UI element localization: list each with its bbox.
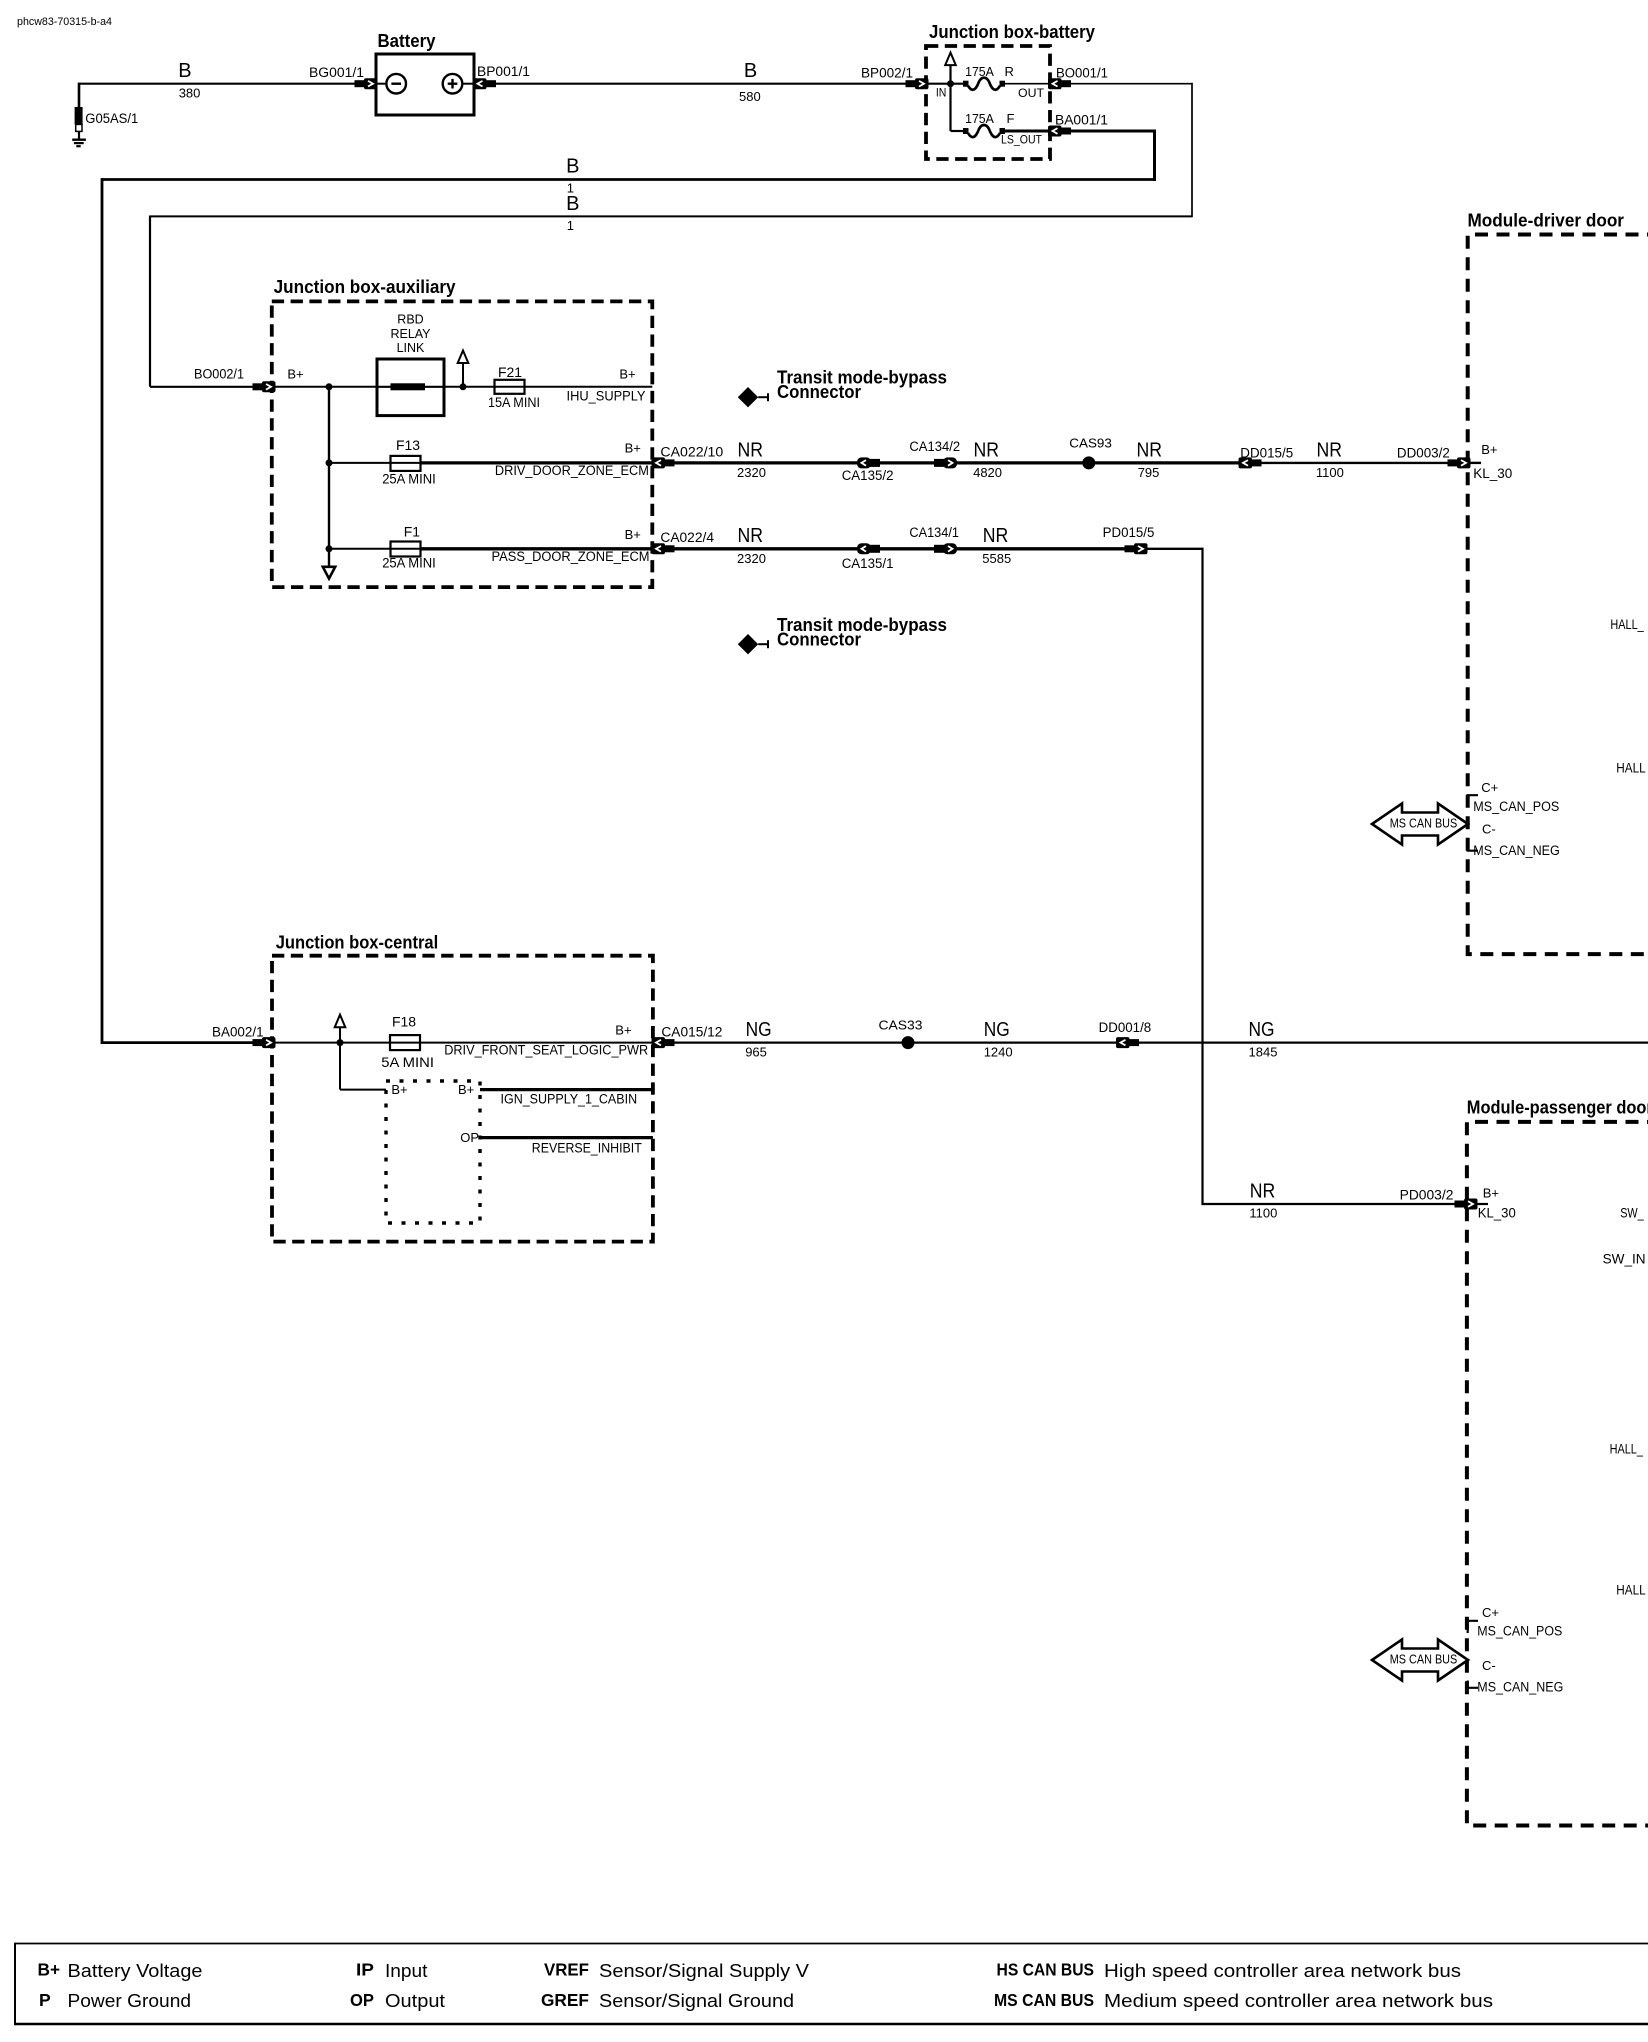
svg-text:795: 795 bbox=[1138, 465, 1160, 480]
svg-text:F1: F1 bbox=[404, 524, 421, 540]
svg-text:F: F bbox=[1007, 111, 1015, 126]
svg-text:F21: F21 bbox=[498, 364, 522, 380]
svg-text:B+: B+ bbox=[625, 527, 641, 542]
svg-text:4820: 4820 bbox=[973, 465, 1002, 480]
svg-text:REVERSE_INHIBIT: REVERSE_INHIBIT bbox=[532, 1140, 642, 1155]
svg-text:Input: Input bbox=[385, 1961, 428, 1981]
svg-text:Module-passenger door: Module-passenger door bbox=[1467, 1098, 1648, 1118]
svg-text:DD001/8: DD001/8 bbox=[1099, 1020, 1152, 1035]
svg-text:B: B bbox=[744, 60, 757, 82]
svg-text:NR: NR bbox=[983, 525, 1009, 547]
svg-text:CA134/1: CA134/1 bbox=[909, 525, 959, 540]
svg-text:CAS93: CAS93 bbox=[1069, 436, 1112, 451]
svg-text:C+: C+ bbox=[1482, 1605, 1499, 1620]
svg-text:B: B bbox=[566, 193, 579, 215]
svg-text:phcw83-70315-b-a4: phcw83-70315-b-a4 bbox=[17, 16, 112, 28]
svg-text:NR: NR bbox=[974, 439, 1000, 461]
svg-text:MS CAN BUS: MS CAN BUS bbox=[1390, 816, 1458, 830]
svg-text:C+: C+ bbox=[1481, 780, 1498, 795]
svg-text:CA135/1: CA135/1 bbox=[842, 556, 894, 571]
svg-text:Output: Output bbox=[385, 1991, 445, 2011]
svg-text:Medium speed controller area n: Medium speed controller area network bus bbox=[1104, 1991, 1493, 2011]
svg-text:Sensor/Signal Ground: Sensor/Signal Ground bbox=[599, 1991, 794, 2011]
svg-text:OP: OP bbox=[350, 1990, 374, 2010]
svg-text:MS_CAN_POS: MS_CAN_POS bbox=[1477, 1623, 1562, 1638]
svg-text:LS_OUT: LS_OUT bbox=[1001, 133, 1043, 147]
svg-text:MS_CAN_NEG: MS_CAN_NEG bbox=[1473, 843, 1560, 858]
svg-text:RELAY: RELAY bbox=[390, 327, 431, 341]
svg-text:F18: F18 bbox=[392, 1014, 416, 1030]
svg-text:Junction box-central: Junction box-central bbox=[276, 932, 439, 952]
svg-text:175A: 175A bbox=[965, 64, 994, 79]
svg-text:GREF: GREF bbox=[541, 1990, 589, 2010]
svg-text:5A MINI: 5A MINI bbox=[381, 1055, 434, 1070]
svg-text:B+: B+ bbox=[38, 1959, 61, 1979]
svg-text:B+: B+ bbox=[1483, 1186, 1499, 1201]
svg-text:NR: NR bbox=[1137, 439, 1163, 461]
svg-text:NR: NR bbox=[738, 525, 764, 547]
svg-text:NR: NR bbox=[738, 439, 764, 461]
svg-text:BG001/1: BG001/1 bbox=[309, 65, 364, 80]
svg-text:MS_CAN_POS: MS_CAN_POS bbox=[1473, 799, 1559, 814]
svg-text:KL_30: KL_30 bbox=[1473, 466, 1512, 481]
svg-text:High speed controller area net: High speed controller area network bus bbox=[1104, 1961, 1461, 1981]
svg-text:NR: NR bbox=[1317, 439, 1343, 461]
svg-text:1: 1 bbox=[567, 218, 574, 233]
svg-text:B: B bbox=[566, 156, 579, 178]
svg-text:Connector: Connector bbox=[777, 630, 861, 650]
svg-text:VREF: VREF bbox=[544, 1959, 589, 1979]
svg-text:BO002/1: BO002/1 bbox=[194, 367, 244, 382]
svg-text:CAS33: CAS33 bbox=[879, 1018, 923, 1033]
svg-text:1100: 1100 bbox=[1316, 465, 1344, 480]
svg-text:NG: NG bbox=[1249, 1019, 1275, 1041]
svg-text:SW_IN: SW_IN bbox=[1603, 1252, 1646, 1267]
svg-text:B+: B+ bbox=[615, 1023, 631, 1038]
svg-text:C-: C- bbox=[1482, 822, 1496, 837]
svg-text:B+: B+ bbox=[625, 440, 641, 455]
svg-text:175A: 175A bbox=[965, 111, 994, 126]
svg-text:CA135/2: CA135/2 bbox=[842, 468, 894, 483]
svg-text:965: 965 bbox=[745, 1044, 767, 1059]
svg-text:DRIV_FRONT_SEAT_LOGIC_PWR: DRIV_FRONT_SEAT_LOGIC_PWR bbox=[444, 1043, 648, 1058]
svg-text:Power Ground: Power Ground bbox=[68, 1991, 192, 2011]
svg-text:1845: 1845 bbox=[1249, 1044, 1278, 1059]
svg-text:HALL: HALL bbox=[1616, 761, 1646, 776]
svg-text:IN: IN bbox=[936, 85, 947, 99]
svg-text:5585: 5585 bbox=[982, 551, 1011, 566]
svg-text:B+: B+ bbox=[619, 367, 635, 382]
svg-text:G05AS/1: G05AS/1 bbox=[85, 111, 138, 126]
svg-text:CA022/10: CA022/10 bbox=[660, 444, 723, 459]
svg-text:NG: NG bbox=[984, 1019, 1010, 1041]
svg-text:Connector: Connector bbox=[777, 382, 861, 402]
svg-text:HALL: HALL bbox=[1616, 1582, 1646, 1597]
svg-text:B+: B+ bbox=[1481, 442, 1497, 457]
svg-text:Junction box-battery: Junction box-battery bbox=[929, 22, 1095, 42]
svg-text:380: 380 bbox=[179, 86, 201, 101]
svg-text:1100: 1100 bbox=[1249, 1206, 1277, 1221]
svg-text:BA001/1: BA001/1 bbox=[1055, 113, 1108, 128]
svg-text:HALL_: HALL_ bbox=[1610, 1442, 1644, 1457]
svg-text:PD015/5: PD015/5 bbox=[1103, 525, 1155, 540]
svg-text:IP: IP bbox=[356, 1959, 374, 1979]
svg-text:RBD: RBD bbox=[397, 313, 423, 327]
svg-text:MS CAN BUS: MS CAN BUS bbox=[994, 1990, 1094, 2010]
svg-text:25A MINI: 25A MINI bbox=[382, 471, 436, 486]
svg-text:Junction box-auxiliary: Junction box-auxiliary bbox=[274, 277, 456, 297]
svg-text:MS_CAN_NEG: MS_CAN_NEG bbox=[1477, 1680, 1563, 1695]
svg-text:DD003/2: DD003/2 bbox=[1397, 446, 1450, 461]
svg-text:Module-driver door: Module-driver door bbox=[1468, 211, 1625, 231]
svg-text:B+: B+ bbox=[287, 367, 303, 382]
svg-text:DD015/5: DD015/5 bbox=[1240, 446, 1293, 461]
svg-text:BO001/1: BO001/1 bbox=[1056, 66, 1108, 81]
svg-text:2320: 2320 bbox=[737, 465, 766, 480]
svg-text:CA022/4: CA022/4 bbox=[660, 530, 714, 545]
svg-text:OUT: OUT bbox=[1018, 86, 1045, 100]
svg-text:BP002/1: BP002/1 bbox=[861, 66, 913, 81]
svg-text:DRIV_DOOR_ZONE_ECM: DRIV_DOOR_ZONE_ECM bbox=[495, 463, 649, 478]
svg-text:1240: 1240 bbox=[984, 1044, 1013, 1059]
svg-text:HALL_: HALL_ bbox=[1610, 617, 1644, 632]
svg-text:F13: F13 bbox=[396, 437, 420, 453]
svg-text:KL_30: KL_30 bbox=[1478, 1206, 1516, 1221]
svg-text:CA134/2: CA134/2 bbox=[909, 439, 960, 454]
svg-text:B+: B+ bbox=[391, 1082, 407, 1097]
svg-text:PASS_DOOR_ZONE_ECM: PASS_DOOR_ZONE_ECM bbox=[492, 549, 650, 564]
svg-text:Battery: Battery bbox=[378, 31, 436, 51]
svg-text:C-: C- bbox=[1482, 1658, 1496, 1673]
svg-text:CA015/12: CA015/12 bbox=[661, 1025, 722, 1040]
svg-text:Battery Voltage: Battery Voltage bbox=[68, 1961, 203, 1981]
svg-text:MS CAN BUS: MS CAN BUS bbox=[1390, 1652, 1458, 1666]
svg-text:B+: B+ bbox=[458, 1082, 474, 1097]
svg-text:B: B bbox=[178, 60, 191, 82]
svg-text:P: P bbox=[39, 1990, 51, 2010]
svg-text:PD003/2: PD003/2 bbox=[1400, 1188, 1454, 1203]
svg-text:BP001/1: BP001/1 bbox=[477, 64, 530, 79]
svg-text:HS CAN BUS: HS CAN BUS bbox=[997, 1959, 1095, 1979]
svg-text:OP: OP bbox=[460, 1130, 479, 1145]
svg-text:Sensor/Signal Supply V: Sensor/Signal Supply V bbox=[599, 1961, 809, 1981]
svg-text:IHU_SUPPLY: IHU_SUPPLY bbox=[567, 389, 646, 404]
svg-text:SW_: SW_ bbox=[1620, 1206, 1644, 1221]
svg-text:2320: 2320 bbox=[737, 551, 766, 566]
svg-text:IGN_SUPPLY_1_CABIN: IGN_SUPPLY_1_CABIN bbox=[501, 1092, 638, 1107]
svg-text:NG: NG bbox=[746, 1019, 772, 1041]
svg-text:15A MINI: 15A MINI bbox=[488, 395, 540, 410]
svg-text:BA002/1: BA002/1 bbox=[212, 1025, 264, 1040]
svg-text:R: R bbox=[1005, 64, 1014, 79]
svg-text:LINK: LINK bbox=[397, 341, 425, 355]
svg-text:580: 580 bbox=[739, 89, 761, 104]
svg-text:NR: NR bbox=[1250, 1180, 1276, 1202]
svg-text:25A MINI: 25A MINI bbox=[382, 556, 436, 571]
